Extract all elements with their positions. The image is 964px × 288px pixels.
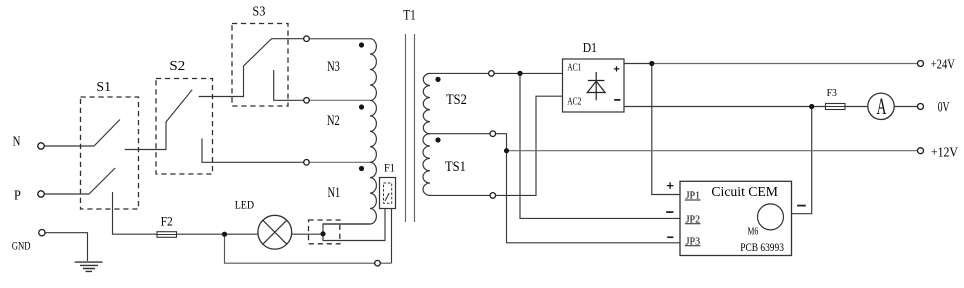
svg-text:D1: D1 [583, 40, 597, 55]
svg-text:F2: F2 [161, 214, 173, 229]
svg-text:PCB 63993: PCB 63993 [740, 242, 784, 254]
svg-text:N3: N3 [327, 58, 340, 74]
svg-text:T1: T1 [403, 6, 415, 23]
svg-text:P: P [14, 187, 21, 203]
svg-text:S1: S1 [96, 80, 111, 95]
svg-text:F1: F1 [384, 162, 395, 175]
svg-text:+24V: +24V [931, 56, 955, 72]
svg-text:N: N [13, 133, 21, 149]
svg-text:S3: S3 [252, 3, 265, 19]
svg-text:0V: 0V [938, 98, 950, 115]
svg-text:Cicuit CEM: Cicuit CEM [711, 184, 778, 199]
svg-text:A: A [877, 95, 887, 121]
svg-text:JP2: JP2 [686, 214, 700, 225]
svg-text:LED: LED [235, 199, 254, 212]
svg-text:M6: M6 [748, 225, 759, 236]
svg-text:TS2: TS2 [446, 91, 467, 107]
svg-text:F3: F3 [827, 88, 837, 99]
svg-text:N1: N1 [328, 184, 341, 200]
svg-text:TS1: TS1 [445, 158, 466, 174]
svg-text:AC2: AC2 [567, 97, 581, 109]
svg-text:AC1: AC1 [567, 63, 581, 75]
svg-text:JP1: JP1 [686, 190, 700, 201]
svg-text:S2: S2 [169, 58, 185, 73]
svg-text:+12V: +12V [931, 145, 959, 160]
svg-text:GND: GND [12, 240, 31, 253]
svg-text:N2: N2 [327, 112, 340, 128]
svg-text:JP3: JP3 [686, 236, 700, 247]
